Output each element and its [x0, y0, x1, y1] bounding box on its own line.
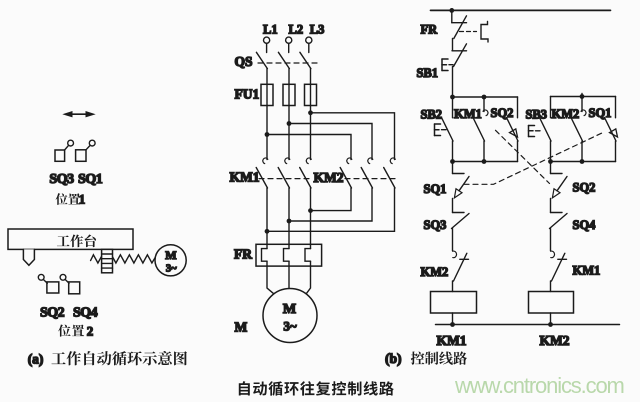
SQ2 actuation arrow [510, 129, 518, 137]
label 位置1 [56, 193, 81, 205]
svg-text:M: M [165, 248, 176, 262]
SB2 NO pushbutton [442, 97, 454, 162]
svg-text:SB3: SB3 [526, 108, 548, 122]
svg-text:SB1: SB1 [417, 66, 439, 80]
svg-text:KM1: KM1 [230, 170, 260, 185]
svg-text:SQ1: SQ1 [78, 172, 103, 187]
SB2 actuator E [435, 124, 447, 136]
svg-text:SQ1: SQ1 [424, 182, 447, 196]
svg-text:SQ4: SQ4 [73, 306, 98, 321]
lead screw zigzag [91, 255, 156, 263]
control top rail [431, 9, 611, 11]
svg-text:SB2: SB2 [421, 108, 443, 122]
node left rail a [450, 95, 455, 100]
SQ2 NC limit contact [551, 162, 568, 213]
KM2 linkage dashed [345, 178, 398, 180]
svg-text:L1: L1 [263, 23, 278, 37]
node KM2c1 join [308, 208, 313, 213]
control bottom rail [436, 324, 620, 326]
wire phase A upper [266, 69, 268, 160]
KM2 NC interlock contact [453, 251, 469, 291]
KM2 contact 1 [340, 158, 352, 188]
KM2 aux NO contact [571, 97, 586, 162]
label 工作台 [57, 234, 96, 247]
coil KM1 [431, 292, 477, 314]
SQ1 NC limit contact [453, 162, 470, 213]
fuse FU1 phase C [305, 84, 317, 105]
QS blade phase B [278, 52, 289, 68]
wire KM2 contact 3 output [267, 188, 395, 231]
KM1 contact 3 [300, 158, 312, 188]
svg-text:SQ1: SQ1 [589, 106, 612, 120]
FR actuator dashed link [460, 31, 477, 33]
KM2 contact 2 [361, 158, 373, 188]
svg-text:(a): (a) [28, 352, 44, 367]
wire KM2 contact 1 output [311, 188, 352, 211]
right group top rail [551, 96, 616, 98]
wire tap B to KM2 contact 2 [289, 124, 372, 160]
wire phase C lower [310, 188, 312, 249]
svg-text:FR: FR [421, 23, 439, 37]
wire phase B upper [288, 69, 290, 160]
svg-text:KM2: KM2 [540, 333, 570, 348]
svg-text:L2: L2 [289, 23, 304, 37]
SQ1 actuation arrow [610, 129, 618, 137]
left group bottom rail [453, 161, 518, 163]
FR heater phase B [284, 249, 290, 262]
wire FR to motor B [288, 261, 290, 288]
limit switch SQ2 symbol [38, 274, 59, 293]
SQ1 NO limit contact [605, 97, 617, 162]
svg-text:L3: L3 [310, 23, 325, 37]
KM2 contact 3 [384, 158, 396, 188]
QS linkage dashed [258, 62, 321, 64]
svg-text:3~: 3~ [166, 264, 177, 275]
node right bottom a [548, 159, 553, 164]
KM1 NC interlock contact [551, 251, 567, 291]
KM1 aux NO contact [473, 97, 488, 162]
svg-text:www.cntronics.com: www.cntronics.com [454, 373, 624, 398]
QS blade phase C [300, 52, 311, 68]
svg-text:(b): (b) [385, 351, 402, 366]
fuse FU1 phase B [283, 84, 295, 105]
svg-text:KM1: KM1 [454, 107, 482, 121]
node right rail stub [580, 94, 585, 99]
svg-text:KM2: KM2 [314, 170, 344, 185]
screw nut [102, 249, 113, 272]
svg-text:SQ3: SQ3 [424, 218, 447, 232]
wire FR to motor C [306, 261, 311, 294]
SQ4 NC contact [550, 213, 568, 251]
terminal L2 [286, 37, 292, 52]
right group bottom rail [551, 161, 616, 163]
FR heater phase A [262, 249, 268, 262]
svg-text:QS: QS [235, 54, 253, 69]
SQ2 NO limit contact [507, 97, 519, 162]
left group top rail [453, 96, 518, 98]
wire coil KM1 to rail [452, 313, 454, 325]
KM1 contact 1 [256, 158, 268, 188]
motor M left panel [155, 245, 186, 276]
wire tap A to KM2 contact 1 [267, 135, 351, 160]
node bottom rail KM2 [548, 322, 553, 327]
limit switch SQ1 symbol [76, 140, 96, 161]
node bottom rail KM1 [450, 322, 455, 327]
svg-text:1: 1 [79, 192, 86, 207]
svg-text:KM1: KM1 [573, 264, 601, 278]
svg-text:M: M [283, 302, 296, 317]
wire coil KM2 to rail [550, 313, 552, 325]
SB3 actuator E [529, 126, 541, 137]
svg-text:SQ3: SQ3 [49, 172, 74, 187]
table dog tab [23, 249, 34, 265]
node right bottom b [580, 159, 585, 164]
svg-text:KM2: KM2 [552, 107, 580, 121]
svg-text:SQ2: SQ2 [40, 306, 65, 321]
motion double arrow [62, 111, 95, 117]
node phase C tap [308, 110, 313, 115]
svg-text:SQ2: SQ2 [491, 106, 514, 120]
node left bottom b [482, 159, 487, 164]
svg-text:KM1: KM1 [437, 333, 467, 348]
node top rail junction [449, 8, 454, 13]
wire phase A lower [266, 188, 268, 249]
svg-text:FU1: FU1 [235, 87, 260, 102]
SQ1 mechanical dashed link [464, 132, 605, 185]
wire phase C upper [310, 69, 312, 160]
SB1 NC pushbutton [452, 44, 467, 97]
thermal relay FR block [256, 244, 322, 266]
SQ2 mechanical dashed link [496, 130, 550, 183]
label 位置2 [58, 324, 84, 336]
SB1 actuator E [442, 59, 453, 71]
node left rail b [482, 95, 487, 100]
terminal L3 [306, 37, 312, 52]
wire FR to motor A [267, 261, 275, 295]
svg-text:3~: 3~ [283, 319, 297, 334]
wire phase B lower [288, 188, 290, 249]
node phase A tap [265, 132, 270, 137]
KM1 linkage dashed [259, 178, 313, 180]
svg-text:KM2: KM2 [421, 265, 449, 279]
SQ3 NC contact [452, 213, 470, 251]
svg-text:FR: FR [234, 247, 252, 262]
coil KM2 [529, 292, 574, 314]
limit switch SQ4 symbol [60, 274, 80, 293]
caption 自动循环往复控制线路 [239, 381, 394, 396]
node phase B tap [287, 121, 292, 126]
worktable box [8, 229, 133, 249]
QS blade phase A [256, 52, 267, 68]
svg-text:2: 2 [87, 324, 94, 339]
node left bottom a [450, 159, 455, 164]
FR heater phase C [305, 249, 311, 262]
SB3 NO pushbutton [540, 97, 552, 162]
fuse FU1 phase A [261, 84, 273, 105]
svg-text:SQ4: SQ4 [573, 218, 597, 232]
motor M main [263, 289, 317, 343]
wire tap C to KM2 contact 3 [311, 113, 395, 160]
svg-text:M: M [235, 320, 248, 335]
KM1 contact 2 [278, 158, 290, 188]
limit switch SQ3 symbol [55, 140, 74, 161]
FR NC contact [452, 10, 467, 50]
terminal L1 [264, 37, 270, 52]
svg-text:SQ2: SQ2 [573, 181, 596, 195]
node KM2c3 join [265, 229, 270, 234]
FR actuator bracket [481, 22, 488, 43]
wire KM2 contact 2 output [289, 188, 372, 221]
node KM2c2 join [287, 219, 292, 224]
